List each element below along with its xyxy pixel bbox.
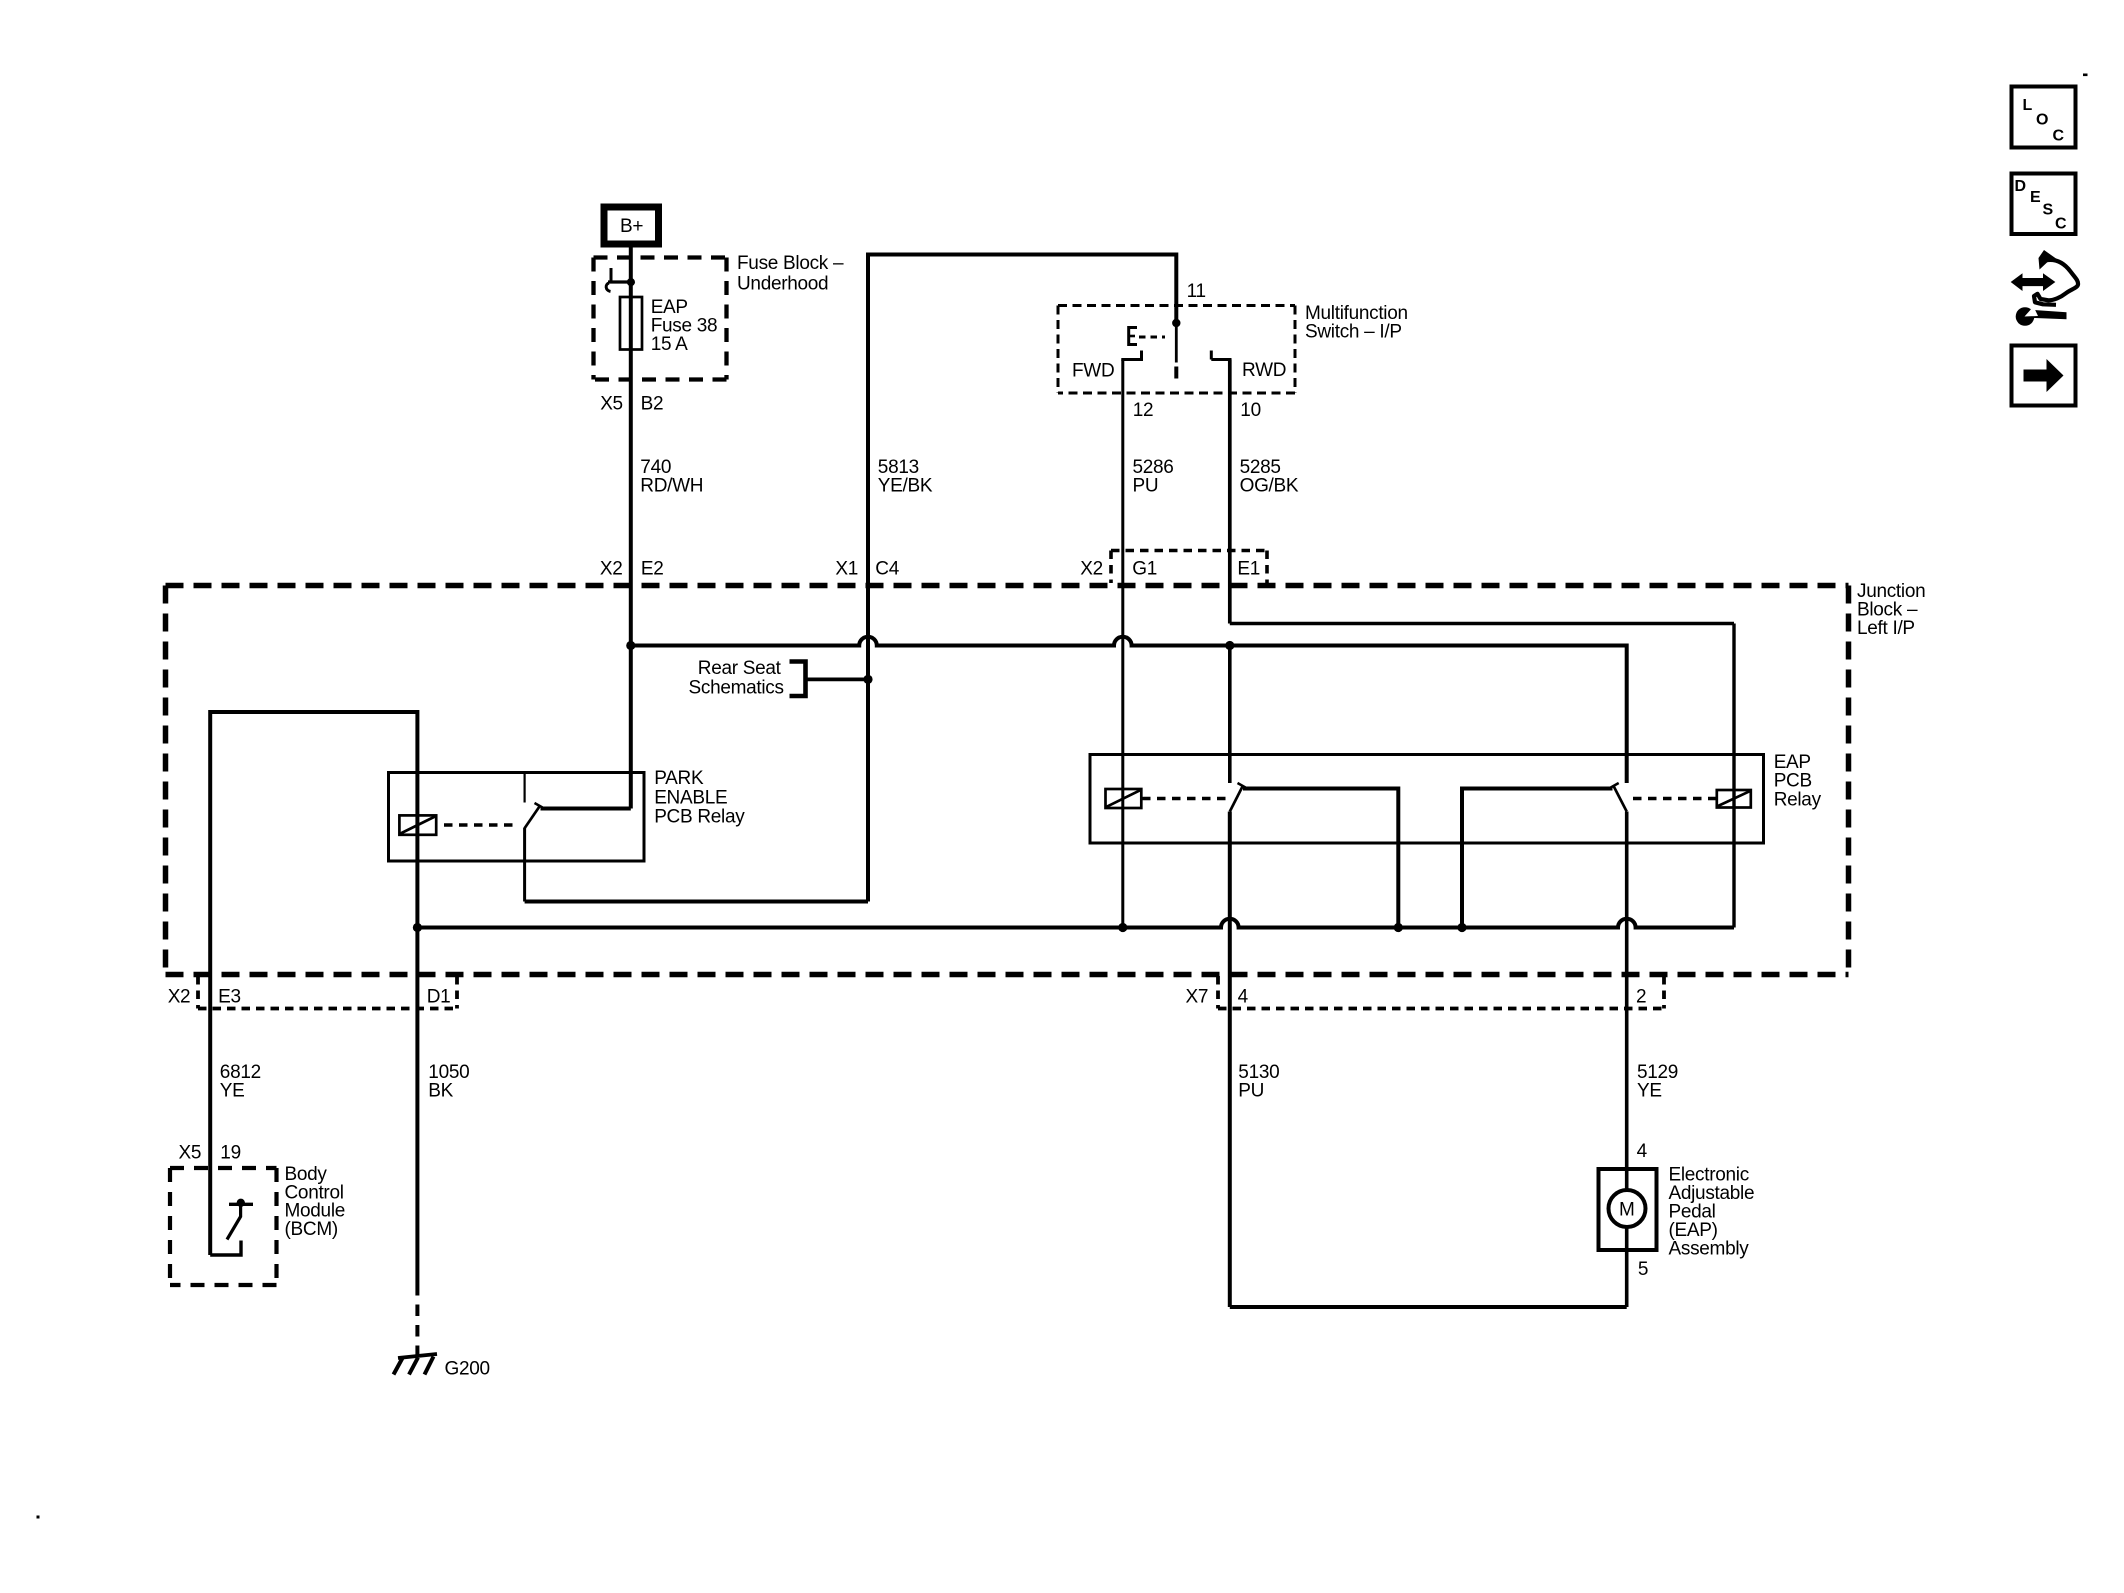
multifunction switch dashed box: [1058, 306, 1295, 394]
svg-text:Rear Seat: Rear Seat: [698, 658, 782, 679]
svg-text:X2: X2: [600, 559, 623, 580]
EAP right coil: [1717, 790, 1751, 808]
svg-text:ENABLE: ENABLE: [654, 787, 727, 808]
connector X2 G1 E1 dashed box: [1111, 551, 1267, 584]
RWD contact: [1211, 351, 1231, 360]
svg-text:X7: X7: [1186, 987, 1209, 1008]
svg-text:(BCM): (BCM): [285, 1219, 338, 1240]
motor pin 5 wire: [1625, 1226, 1629, 1307]
EAP left common wire 5130: [1228, 812, 1232, 1308]
wire 5813 vertical: [866, 253, 870, 902]
svg-text:PARK: PARK: [654, 768, 704, 789]
BCM switch dot: [237, 1199, 245, 1207]
svg-text:YE/BK: YE/BK: [878, 476, 933, 497]
EAP right arm barb: [1611, 783, 1619, 788]
EAP left coil: [1106, 789, 1142, 808]
rear seat wire: [806, 678, 869, 682]
EAP PCB relay box: [1090, 755, 1764, 844]
PARK arm barb: [535, 803, 543, 808]
bus line A B+ feed with hops: [631, 637, 1627, 646]
svg-text:X5: X5: [600, 393, 623, 414]
svg-text:2: 2: [1636, 987, 1646, 1008]
switch wiper dash: [1174, 367, 1178, 379]
BCM switch arm: [227, 1205, 241, 1240]
svg-text:RD/WH: RD/WH: [640, 476, 703, 497]
svg-text:E1: E1: [1237, 559, 1260, 580]
svg-text:B+: B+: [620, 216, 643, 237]
svg-text:BK: BK: [428, 1081, 453, 1102]
svg-text:5: 5: [1638, 1259, 1648, 1280]
BCM switch tick: [229, 1203, 253, 1206]
svg-text:FWD: FWD: [1072, 361, 1114, 382]
svg-text:E: E: [2030, 189, 2041, 206]
node dot bus/contact D: [1457, 923, 1466, 932]
switch position bracket symbol: [1129, 328, 1137, 345]
wire 6812 horizontal top: [210, 710, 417, 714]
EAP left switch arm: [1230, 787, 1243, 812]
svg-text:Underhood: Underhood: [737, 273, 828, 294]
svg-text:PCB Relay: PCB Relay: [654, 807, 745, 828]
svg-text:15 A: 15 A: [651, 334, 688, 355]
wire 1050 dashed to ground: [415, 1284, 419, 1356]
svg-text:11: 11: [1187, 281, 1206, 302]
PARK ENABLE PCB relay box: [389, 773, 645, 862]
motor circle: [1609, 1190, 1646, 1227]
wire 5285 OG/BK (RWD down): [1228, 360, 1232, 624]
EAP assembly bottom wire: [1230, 1305, 1627, 1309]
node dot rear seat / 5813: [863, 675, 872, 684]
ground bus with hops: [417, 919, 1734, 928]
node dot bus/left coil: [1118, 923, 1127, 932]
clip symbol in fuse block: [606, 268, 631, 292]
svg-text:PU: PU: [1133, 476, 1159, 497]
svg-text:X2: X2: [168, 987, 191, 1008]
EAP right contact line D: [1462, 789, 1613, 928]
svg-text:19: 19: [220, 1143, 241, 1164]
fuse block - underhood dashed box: [594, 258, 727, 380]
svg-text:X2: X2: [1080, 559, 1103, 580]
svg-text:Fuse Block –: Fuse Block –: [737, 253, 844, 274]
EAP right coil dashed link: [1633, 797, 1716, 800]
wire 5286 PU (FWD to EAP relay coil to bus): [1121, 360, 1124, 928]
PARK relay fixed stub: [523, 774, 525, 803]
svg-text:M: M: [1619, 1200, 1635, 1221]
node dot line A / relay common: [1225, 641, 1234, 650]
svg-text:RWD: RWD: [1242, 360, 1286, 381]
svg-text:C4: C4: [875, 559, 899, 580]
EAP left switch upper: [1228, 646, 1232, 784]
EAP left contact line C: [1243, 789, 1398, 928]
connector X2 E3 D1 dashed box: [198, 976, 457, 1009]
wire 5813 top horizontal: [868, 253, 1176, 257]
multifunction switch pin 11 wire: [1174, 253, 1178, 324]
EAP assembly motor box: [1599, 1169, 1657, 1250]
svg-text:S: S: [2043, 202, 2054, 219]
svg-text:D1: D1: [427, 987, 451, 1008]
connector X7 4 2 dashed box: [1218, 976, 1664, 1009]
BCM fixed contact L: [210, 1241, 241, 1256]
svg-text:C: C: [2055, 216, 2067, 233]
harness routing icon curved arrow: [2034, 260, 2078, 305]
harness routing icon double arrow: [2012, 274, 2055, 290]
svg-text:L: L: [2023, 97, 2033, 114]
svg-text:C: C: [2053, 128, 2065, 145]
svg-text:YE: YE: [220, 1081, 245, 1102]
node dot bus/1050: [413, 923, 422, 932]
DESC icon box: [2012, 174, 2076, 235]
pin 11 junction dot: [1172, 319, 1180, 327]
next page arrow: [2024, 359, 2064, 392]
svg-text:4: 4: [1637, 1141, 1648, 1162]
speck top right: [2083, 74, 2088, 77]
wrench icon: [2030, 310, 2067, 319]
svg-text:G1: G1: [1132, 559, 1157, 580]
svg-text:X1: X1: [835, 559, 858, 580]
svg-text:G200: G200: [445, 1359, 490, 1380]
svg-text:E3: E3: [218, 987, 241, 1008]
PARK relay contact line: [541, 807, 631, 811]
svg-text:D: D: [2015, 178, 2026, 195]
LOC icon box: [2012, 87, 2076, 148]
fuse EAP Fuse 38 15A: [620, 297, 642, 350]
PARK relay switch arm: [524, 806, 539, 829]
EAP right switch upper: [1625, 644, 1629, 784]
svg-text:PU: PU: [1238, 1081, 1264, 1102]
svg-text:Relay: Relay: [1774, 789, 1822, 810]
PARK relay coil: [399, 815, 436, 834]
BCM dashed box: [170, 1168, 277, 1285]
svg-text:E2: E2: [641, 559, 664, 580]
wire 1050 coil wire: [415, 710, 419, 1284]
svg-text:Assembly: Assembly: [1669, 1239, 1750, 1260]
svg-text:Schematics: Schematics: [689, 677, 784, 698]
wire 6812 vertical: [208, 710, 212, 1255]
wire line B RWD to right coil: [1230, 622, 1734, 625]
svg-text:4: 4: [1238, 987, 1249, 1008]
node dot 740/line A: [626, 641, 635, 650]
EAP left coil dashed link: [1142, 797, 1228, 800]
ground G200 symbol: [394, 1354, 438, 1375]
svg-text:10: 10: [1240, 400, 1261, 421]
next page arrow box: [2012, 346, 2076, 406]
wire 740 B+ to park relay contact: [629, 245, 633, 809]
svg-text:O: O: [2036, 111, 2048, 128]
PARK relay common wire down: [523, 828, 526, 902]
EAP left arm barb: [1238, 783, 1246, 788]
junction dot at clip: [627, 278, 635, 286]
svg-text:Left I/P: Left I/P: [1857, 618, 1915, 639]
dashed link bracket to wiper: [1139, 336, 1165, 339]
EAP right switch arm: [1614, 787, 1627, 812]
EAP right common wire 5129: [1625, 812, 1629, 1192]
relay output horizontal to 5813: [525, 900, 868, 904]
right coil wire down: [1732, 624, 1735, 928]
B+ power symbol: [604, 207, 659, 244]
svg-text:OG/BK: OG/BK: [1240, 476, 1299, 497]
junction block dashed border: [166, 586, 1849, 975]
harness routing icon arrowhead: [2039, 250, 2057, 270]
svg-text:YE: YE: [1637, 1081, 1662, 1102]
svg-text:12: 12: [1133, 400, 1154, 421]
svg-text:B2: B2: [641, 393, 664, 414]
rear seat schematics bracket: [790, 662, 806, 697]
node dot bus/contact C: [1394, 923, 1403, 932]
PARK relay coil-arm dashed link: [444, 823, 519, 826]
svg-text:Switch – I/P: Switch – I/P: [1305, 321, 1402, 342]
FWD contact: [1121, 351, 1143, 360]
svg-text:X5: X5: [179, 1143, 202, 1164]
speck bottom left: [37, 1516, 40, 1519]
